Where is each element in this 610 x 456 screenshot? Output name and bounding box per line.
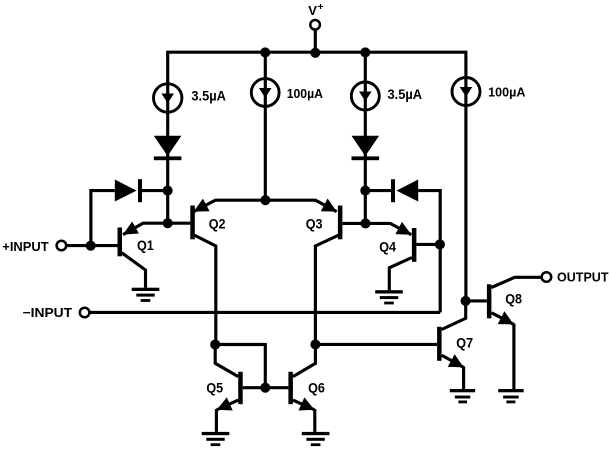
svg-text:+INPUT: +INPUT: [2, 239, 48, 254]
label Q4: [379, 239, 396, 255]
svg-text:Q3: Q3: [306, 216, 323, 232]
svg-text:Q2: Q2: [209, 216, 226, 232]
svg-text:Q4: Q4: [379, 239, 396, 255]
junction dot: rail at I3: [360, 47, 370, 57]
wire: D4 anode right and down to -INPUT line: [418, 191, 440, 313]
current source I4 100uA: [452, 78, 480, 106]
wire: D3 cathode to branch 1: [142, 189, 168, 192]
wire: mirror node to Q5/Q6 base tie: [215, 345, 265, 388]
wire: +INPUT node up to D3 anode: [91, 191, 115, 246]
ground under Q6: [302, 432, 330, 446]
current source I1 3.5uA: [154, 84, 182, 112]
ground under Q1: [132, 288, 160, 302]
wire: D2 node to D4 cathode: [365, 189, 391, 192]
label 3.5uA (I3): [388, 86, 423, 102]
svg-text:3.5µA: 3.5µA: [191, 87, 226, 103]
label Q5: [206, 380, 223, 396]
terminal V+: [310, 20, 320, 30]
label Q3: [306, 216, 323, 232]
terminal -INPUT: [80, 308, 90, 318]
transistor Q6 (NPN): [288, 344, 315, 432]
terminal +INPUT: [57, 241, 67, 251]
junction dot: Q3 base / Q4 emitter node: [360, 218, 370, 228]
svg-text:+: +: [318, 2, 324, 13]
label Q8: [505, 291, 522, 307]
wire: -INPUT line: [90, 311, 440, 314]
svg-text:Q8: Q8: [505, 291, 522, 307]
junction dot: rail at V+: [310, 48, 320, 58]
wire: node to Q7 base: [315, 343, 437, 346]
ground under Q5: [202, 432, 230, 446]
transistor Q8 (NPN): [466, 277, 541, 389]
ground under Q8: [498, 389, 523, 403]
svg-text:Q5: Q5: [206, 380, 223, 396]
label Q2: [209, 216, 226, 232]
current source I2 100uA: [251, 79, 279, 107]
transistor Q4 (PNP): [366, 222, 440, 290]
svg-text:Q6: Q6: [308, 380, 325, 396]
junction dot: Q3/Q6 collector node: [310, 339, 320, 349]
svg-text:OUTPUT: OUTPUT: [557, 270, 609, 284]
transistor Q1 (PNP): [118, 222, 168, 288]
svg-text:Q7: Q7: [456, 335, 473, 351]
label 100uA (I4): [488, 86, 525, 100]
junction dot: +INPUT node: [86, 241, 96, 251]
diode D2: [352, 136, 380, 160]
junction dot: Q5/Q6 base tie: [260, 383, 270, 393]
transistor Q7 (NPN): [437, 301, 466, 389]
diode D4: [391, 179, 418, 202]
wire: branch 3 vertical (rail to Q3/Q4 node): [364, 52, 367, 223]
svg-text:3.5µA: 3.5µA: [388, 86, 423, 102]
junction dot: Q4 base node: [435, 239, 445, 249]
junction dot: D2/D4 node: [360, 186, 370, 196]
junction dot: rail at I2: [260, 47, 270, 57]
ground under Q7: [450, 389, 475, 403]
wire: branch 4 vertical (rail to Q7/Q8 node): [464, 52, 467, 301]
svg-text:V: V: [308, 3, 317, 18]
svg-text:−INPUT: −INPUT: [23, 305, 73, 320]
transistor Q2 (PNP): [168, 199, 266, 345]
transistor Q3 (PNP): [265, 199, 365, 345]
label V+: [308, 2, 323, 18]
label 3.5uA (I1): [191, 87, 226, 103]
wire: branch 1 vertical (rail to Q1/Q2 node): [166, 52, 169, 223]
junction dot: Q1 emitter / Q2 base node: [163, 218, 173, 228]
svg-text:100µA: 100µA: [488, 86, 525, 100]
junction dot: Q2 collector / mirror input node: [210, 339, 220, 349]
wire: V+ lead: [314, 30, 317, 54]
junction dot: D1/D3 node: [163, 186, 173, 196]
label -INPUT: [23, 305, 73, 320]
label Q7: [456, 335, 473, 351]
transistor Q5 (NPN): [215, 345, 288, 432]
junction dot: Q2/Q3 emitter node: [260, 195, 270, 205]
label Q6: [308, 380, 325, 396]
wire: +INPUT to Q1 base: [67, 244, 118, 247]
svg-text:100µA: 100µA: [287, 86, 324, 101]
diode D1: [154, 136, 182, 160]
diode D3: [115, 179, 142, 202]
ground under Q4: [375, 290, 403, 304]
wire: branch 2 vertical (rail to Q2/Q3 emitters): [264, 52, 267, 200]
svg-text:Q1: Q1: [137, 237, 154, 253]
label Q1: [137, 237, 154, 253]
wire: top supply rail: [166, 51, 467, 54]
label +INPUT: [2, 239, 48, 254]
junction dot: Q7 collector / Q8 base node: [461, 296, 471, 306]
label OUTPUT: [557, 270, 609, 284]
label 100uA (I2): [287, 86, 324, 101]
current source I3 3.5uA: [351, 82, 379, 110]
terminal OUTPUT: [542, 272, 552, 282]
